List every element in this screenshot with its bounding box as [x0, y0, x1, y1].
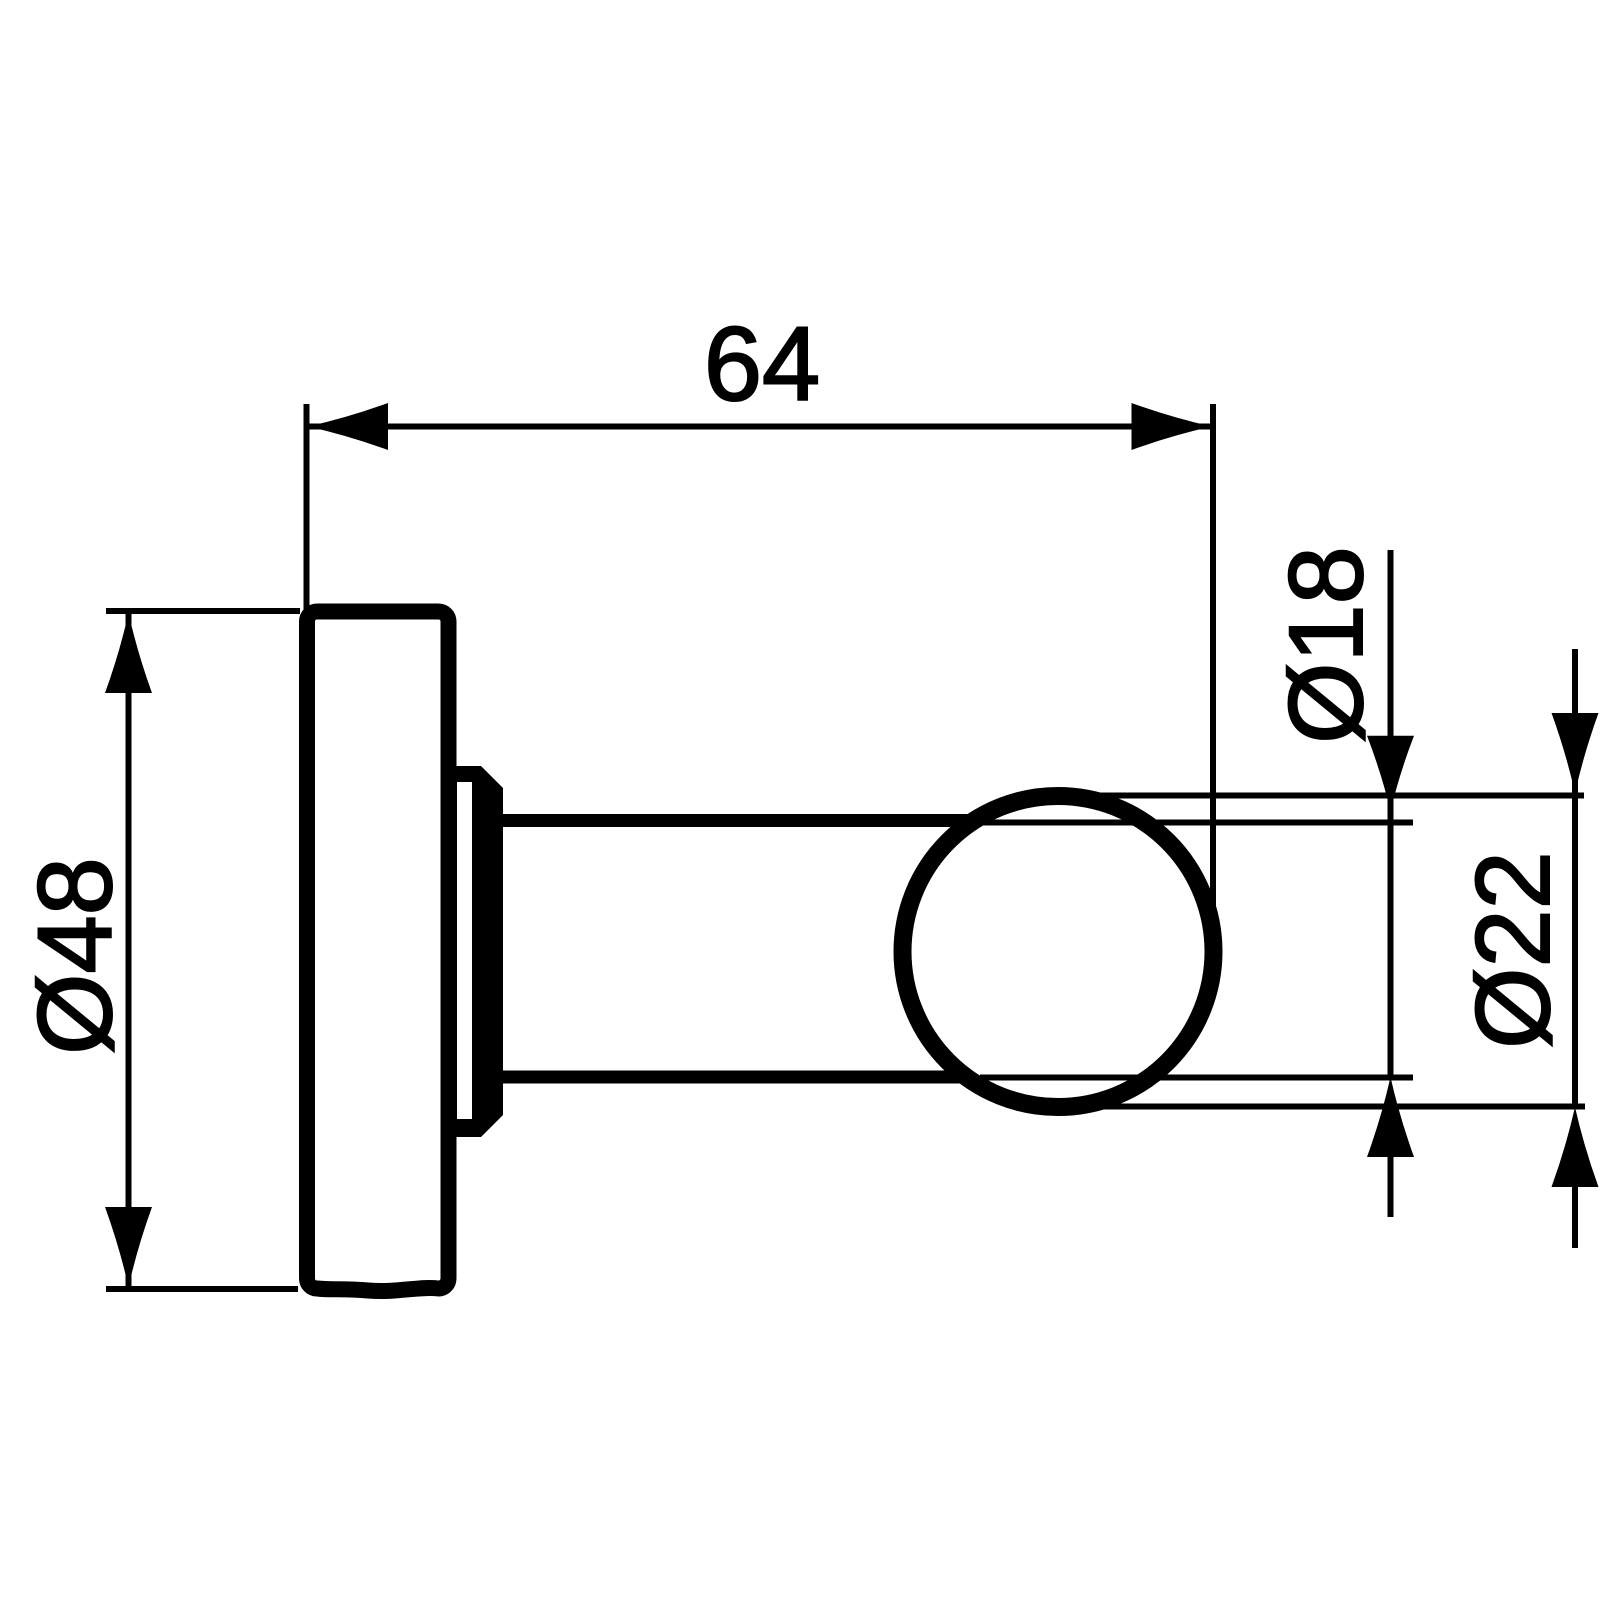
stem top line — [492, 814, 985, 827]
dim O18: dimension line — [1388, 550, 1394, 1080]
dim O22: bottom arrow (points up at circle bottom) — [1552, 1107, 1599, 1187]
dim O18: stem-top extension line — [980, 820, 1413, 826]
wall plate — [307, 612, 449, 1292]
dim 64: dimension line — [309, 424, 1210, 430]
dim O22: dimension line — [1572, 649, 1578, 1106]
dim O22: circle-top tangent extension line — [1060, 793, 1584, 799]
svg-text:Ø48: Ø48 — [17, 857, 134, 1055]
dim O48: bottom extension line — [106, 1286, 298, 1292]
dim 64: left arrow — [308, 403, 388, 450]
dim O18: bottom arrow (points up at stem bottom) — [1367, 1077, 1414, 1157]
dim O48: dimension line — [126, 614, 132, 1286]
dim 64: right extension line — [1210, 404, 1216, 940]
dim O22: bottom tail line — [1572, 1187, 1578, 1248]
svg-text:64: 64 — [704, 306, 820, 423]
dim O18: stem-bottom extension line — [980, 1075, 1413, 1081]
dim O22: circle-bottom tangent extension line — [1060, 1104, 1585, 1110]
dim 64: right arrow — [1132, 403, 1212, 450]
dim O48: bottom arrow — [105, 1207, 152, 1287]
svg-text:Ø22: Ø22 — [1455, 851, 1572, 1049]
collar (flange) silhouette — [448, 766, 503, 1137]
dim O18: bottom tail line — [1388, 1157, 1394, 1217]
dim O48: top arrow — [105, 613, 152, 693]
dim O22: top arrow (points down at circle top) — [1552, 713, 1599, 793]
knob circle — [903, 796, 1214, 1107]
stem bottom line — [492, 1071, 985, 1084]
dim O18: top arrow (points down at stem top) — [1367, 736, 1414, 811]
collar interior highlight — [457, 782, 472, 1119]
dim O48: top extension line — [106, 608, 300, 614]
svg-text:Ø18: Ø18 — [1268, 546, 1385, 744]
dim 64: left extension line — [304, 404, 310, 611]
